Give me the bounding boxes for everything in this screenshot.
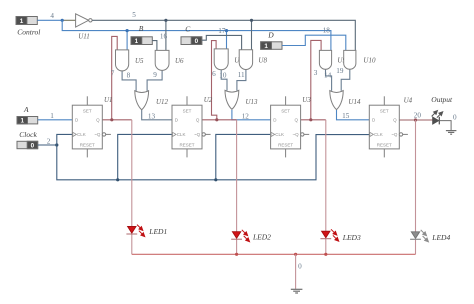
svg-text:RESET: RESET xyxy=(377,142,392,147)
svg-text:7: 7 xyxy=(111,69,115,77)
wire net 4 (Control to U11 input) xyxy=(37,19,62,21)
svg-text:Clock: Clock xyxy=(19,130,37,139)
wire net 8 (U5 out to U12) xyxy=(122,71,136,91)
wire net 3 feedback Q3 to U9 xyxy=(311,40,321,119)
svg-text:U4: U4 xyxy=(404,96,413,104)
svg-text:17: 17 xyxy=(218,27,226,35)
LED LED2 xyxy=(231,229,251,243)
wire clock riser FF2 xyxy=(118,134,172,179)
svg-text:SET: SET xyxy=(380,108,389,113)
wire net 9 (U6 out to U12) xyxy=(147,70,162,91)
svg-text:20: 20 xyxy=(414,111,422,119)
svg-text:~Q: ~Q xyxy=(194,132,201,137)
switch A (value 1) xyxy=(17,117,38,125)
switch Clock (value 0) xyxy=(17,141,38,149)
svg-text:15: 15 xyxy=(342,112,350,120)
junction net5-U6 xyxy=(164,19,167,22)
wire net 4 segment to inverter xyxy=(62,19,75,21)
wire net 15 (U14 out to FF4 D) xyxy=(337,110,370,120)
svg-text:14: 14 xyxy=(324,71,332,79)
wire net 5 drop to U8 xyxy=(251,20,253,50)
wire clock riser FF3 xyxy=(216,134,271,179)
wire net 14 (U9 out to U14) xyxy=(326,69,332,91)
svg-text:SET: SET xyxy=(183,108,192,113)
OR gate U12 xyxy=(135,91,149,110)
svg-text:U13: U13 xyxy=(246,98,259,106)
wire net 18 drop to U7 xyxy=(226,31,228,49)
flip-flop U2 xyxy=(172,96,211,157)
switch Control (value 1) xyxy=(16,17,37,26)
wire output probe to ground xyxy=(440,121,451,131)
svg-text:11: 11 xyxy=(238,71,245,79)
LED LED1 xyxy=(126,223,146,237)
flip-flop U3 xyxy=(271,96,310,157)
ground symbol bottom xyxy=(291,289,303,293)
svg-text:1: 1 xyxy=(135,38,139,45)
svg-text:U5: U5 xyxy=(135,57,144,65)
svg-text:A: A xyxy=(23,105,29,114)
output probe LED xyxy=(430,109,444,124)
switch B (value 1) xyxy=(131,37,152,45)
svg-text:LED3: LED3 xyxy=(342,233,361,242)
svg-text:CLK: CLK xyxy=(177,132,186,137)
junction Q1 xyxy=(110,118,113,121)
OR gate U14 xyxy=(330,91,343,110)
svg-text:16: 16 xyxy=(160,33,168,41)
svg-text:~Q: ~Q xyxy=(391,132,398,137)
svg-text:U6: U6 xyxy=(175,57,184,65)
wire LED4 riser xyxy=(415,120,417,232)
wire net 18 drop to U5 xyxy=(126,31,128,50)
flip-flop U1 xyxy=(72,96,111,157)
wire net 18 control bus xyxy=(62,20,331,50)
junction bus-U7 xyxy=(225,29,228,32)
switch C (value 0) xyxy=(181,37,202,45)
svg-text:1: 1 xyxy=(20,18,24,25)
svg-text:LED1: LED1 xyxy=(148,227,167,236)
AND gate U6 xyxy=(155,50,169,70)
junction net5-U8 xyxy=(250,19,253,22)
svg-text:0: 0 xyxy=(298,262,302,270)
wire net 16 (B to U6) xyxy=(152,41,157,51)
svg-text:Q: Q xyxy=(196,118,200,123)
OR gate U13 xyxy=(225,90,239,109)
junction Q2 xyxy=(215,118,218,121)
wire net 12 (U13 out to FF3 D) xyxy=(232,110,271,120)
wire LED1 riser xyxy=(131,120,133,227)
svg-text:0: 0 xyxy=(31,142,35,149)
svg-text:0: 0 xyxy=(453,113,457,121)
svg-text:U2: U2 xyxy=(204,96,213,104)
wire LED2 riser xyxy=(236,120,238,232)
ground symbol output xyxy=(446,131,457,135)
AND gate U8 xyxy=(239,50,252,70)
wire LED3 riser xyxy=(325,120,327,231)
svg-text:Q: Q xyxy=(294,118,298,123)
svg-text:SET: SET xyxy=(281,108,290,113)
svg-text:RESET: RESET xyxy=(179,142,194,147)
wire net 5 drop to U6 xyxy=(165,20,167,50)
junction clock bus FF2 xyxy=(116,178,119,181)
wire net 3 Q3 to LED3 branch xyxy=(301,119,326,121)
svg-text:CLK: CLK xyxy=(275,132,284,137)
svg-text:RESET: RESET xyxy=(278,142,293,147)
wire LED3 to bus xyxy=(325,239,327,255)
wire ground riser xyxy=(295,254,297,289)
AND gate U5 xyxy=(116,50,129,71)
wire D to U10 xyxy=(282,35,346,50)
svg-text:U3: U3 xyxy=(302,96,311,104)
junction clock xyxy=(55,143,58,146)
wire net 20 Q4 to output probe xyxy=(399,119,432,121)
svg-text:U10: U10 xyxy=(363,56,376,64)
svg-text:CLK: CLK xyxy=(77,132,86,137)
wire LED4 to bus xyxy=(415,239,417,254)
svg-text:19: 19 xyxy=(336,67,344,75)
wire net 6 Q2 to LED2 branch xyxy=(202,119,237,121)
svg-text:6: 6 xyxy=(212,70,216,78)
svg-text:3: 3 xyxy=(314,69,318,77)
wire net 13 (U12 out to U1 D... actually FF2 D) xyxy=(142,110,172,120)
LED LED3 xyxy=(320,228,340,242)
wire net 7 feedback Q1 to U5 xyxy=(112,36,118,119)
junction clock bus FF3 xyxy=(214,178,217,181)
junction Q3 xyxy=(309,118,312,121)
wire net 1 (A to FF1 D) xyxy=(38,119,73,121)
junction bus ground xyxy=(294,253,297,256)
svg-text:~Q: ~Q xyxy=(293,132,300,137)
flip-flop U4 xyxy=(369,96,408,157)
svg-text:Control: Control xyxy=(17,28,40,37)
wire LED1 to bus xyxy=(131,234,133,254)
svg-text:12: 12 xyxy=(242,112,250,120)
svg-text:RESET: RESET xyxy=(80,142,95,147)
inverter U11 xyxy=(76,14,93,27)
svg-text:18: 18 xyxy=(323,27,331,35)
wire net 17 (C to U8) xyxy=(202,35,242,50)
svg-text:Output: Output xyxy=(431,95,453,104)
AND gate U9 xyxy=(319,50,331,69)
wire net 19 (U10 out to U14) xyxy=(341,69,350,91)
wire net 10 (U7 out to U13) xyxy=(221,70,227,91)
svg-text:SET: SET xyxy=(83,108,92,113)
svg-text:U14: U14 xyxy=(348,98,361,106)
wire net 11 (U8 out to U13) xyxy=(237,69,246,90)
svg-text:~Q: ~Q xyxy=(94,132,101,137)
svg-text:5: 5 xyxy=(132,11,136,19)
junction bus-U5 xyxy=(126,29,129,32)
svg-text:4: 4 xyxy=(50,12,54,20)
svg-text:CLK: CLK xyxy=(374,132,383,137)
junction Q4 xyxy=(414,118,417,121)
junction bus LED2 xyxy=(235,253,238,256)
svg-text:LED2: LED2 xyxy=(252,233,271,242)
svg-text:LED4: LED4 xyxy=(431,233,450,242)
wire LED ground bus xyxy=(132,253,416,255)
AND gate U10 xyxy=(344,50,356,69)
wire LED2 to bus xyxy=(236,239,238,254)
wire clock riser FF1 xyxy=(57,134,370,179)
svg-text:Q: Q xyxy=(393,118,397,123)
LED LED4 (off) xyxy=(410,229,430,243)
svg-text:13: 13 xyxy=(148,112,156,120)
svg-text:9: 9 xyxy=(153,71,157,79)
wire net 6 feedback Q2 to U7 xyxy=(212,41,217,120)
switch D (value 1) xyxy=(261,42,282,50)
svg-text:1: 1 xyxy=(20,118,24,125)
svg-text:U8: U8 xyxy=(258,57,267,65)
svg-text:8: 8 xyxy=(127,72,131,80)
junction bus LED3 xyxy=(324,253,327,256)
svg-text:1: 1 xyxy=(264,43,268,50)
junction on net 4 xyxy=(61,19,64,22)
svg-text:1: 1 xyxy=(50,112,54,120)
svg-text:U1: U1 xyxy=(104,96,113,104)
svg-text:Q: Q xyxy=(96,118,100,123)
svg-text:2: 2 xyxy=(47,137,51,145)
wire net 2 clock from switch xyxy=(38,144,57,146)
AND gate U7 xyxy=(214,49,228,70)
svg-text:10: 10 xyxy=(219,71,227,79)
svg-text:D: D xyxy=(267,30,274,39)
svg-text:B: B xyxy=(139,24,144,33)
wire net 5 (inverter output rail) xyxy=(92,20,355,50)
svg-text:0: 0 xyxy=(195,38,199,45)
wire net 7 Q1 to LED1 branch xyxy=(102,119,132,121)
svg-text:U12: U12 xyxy=(156,98,169,106)
svg-text:U11: U11 xyxy=(78,33,90,41)
